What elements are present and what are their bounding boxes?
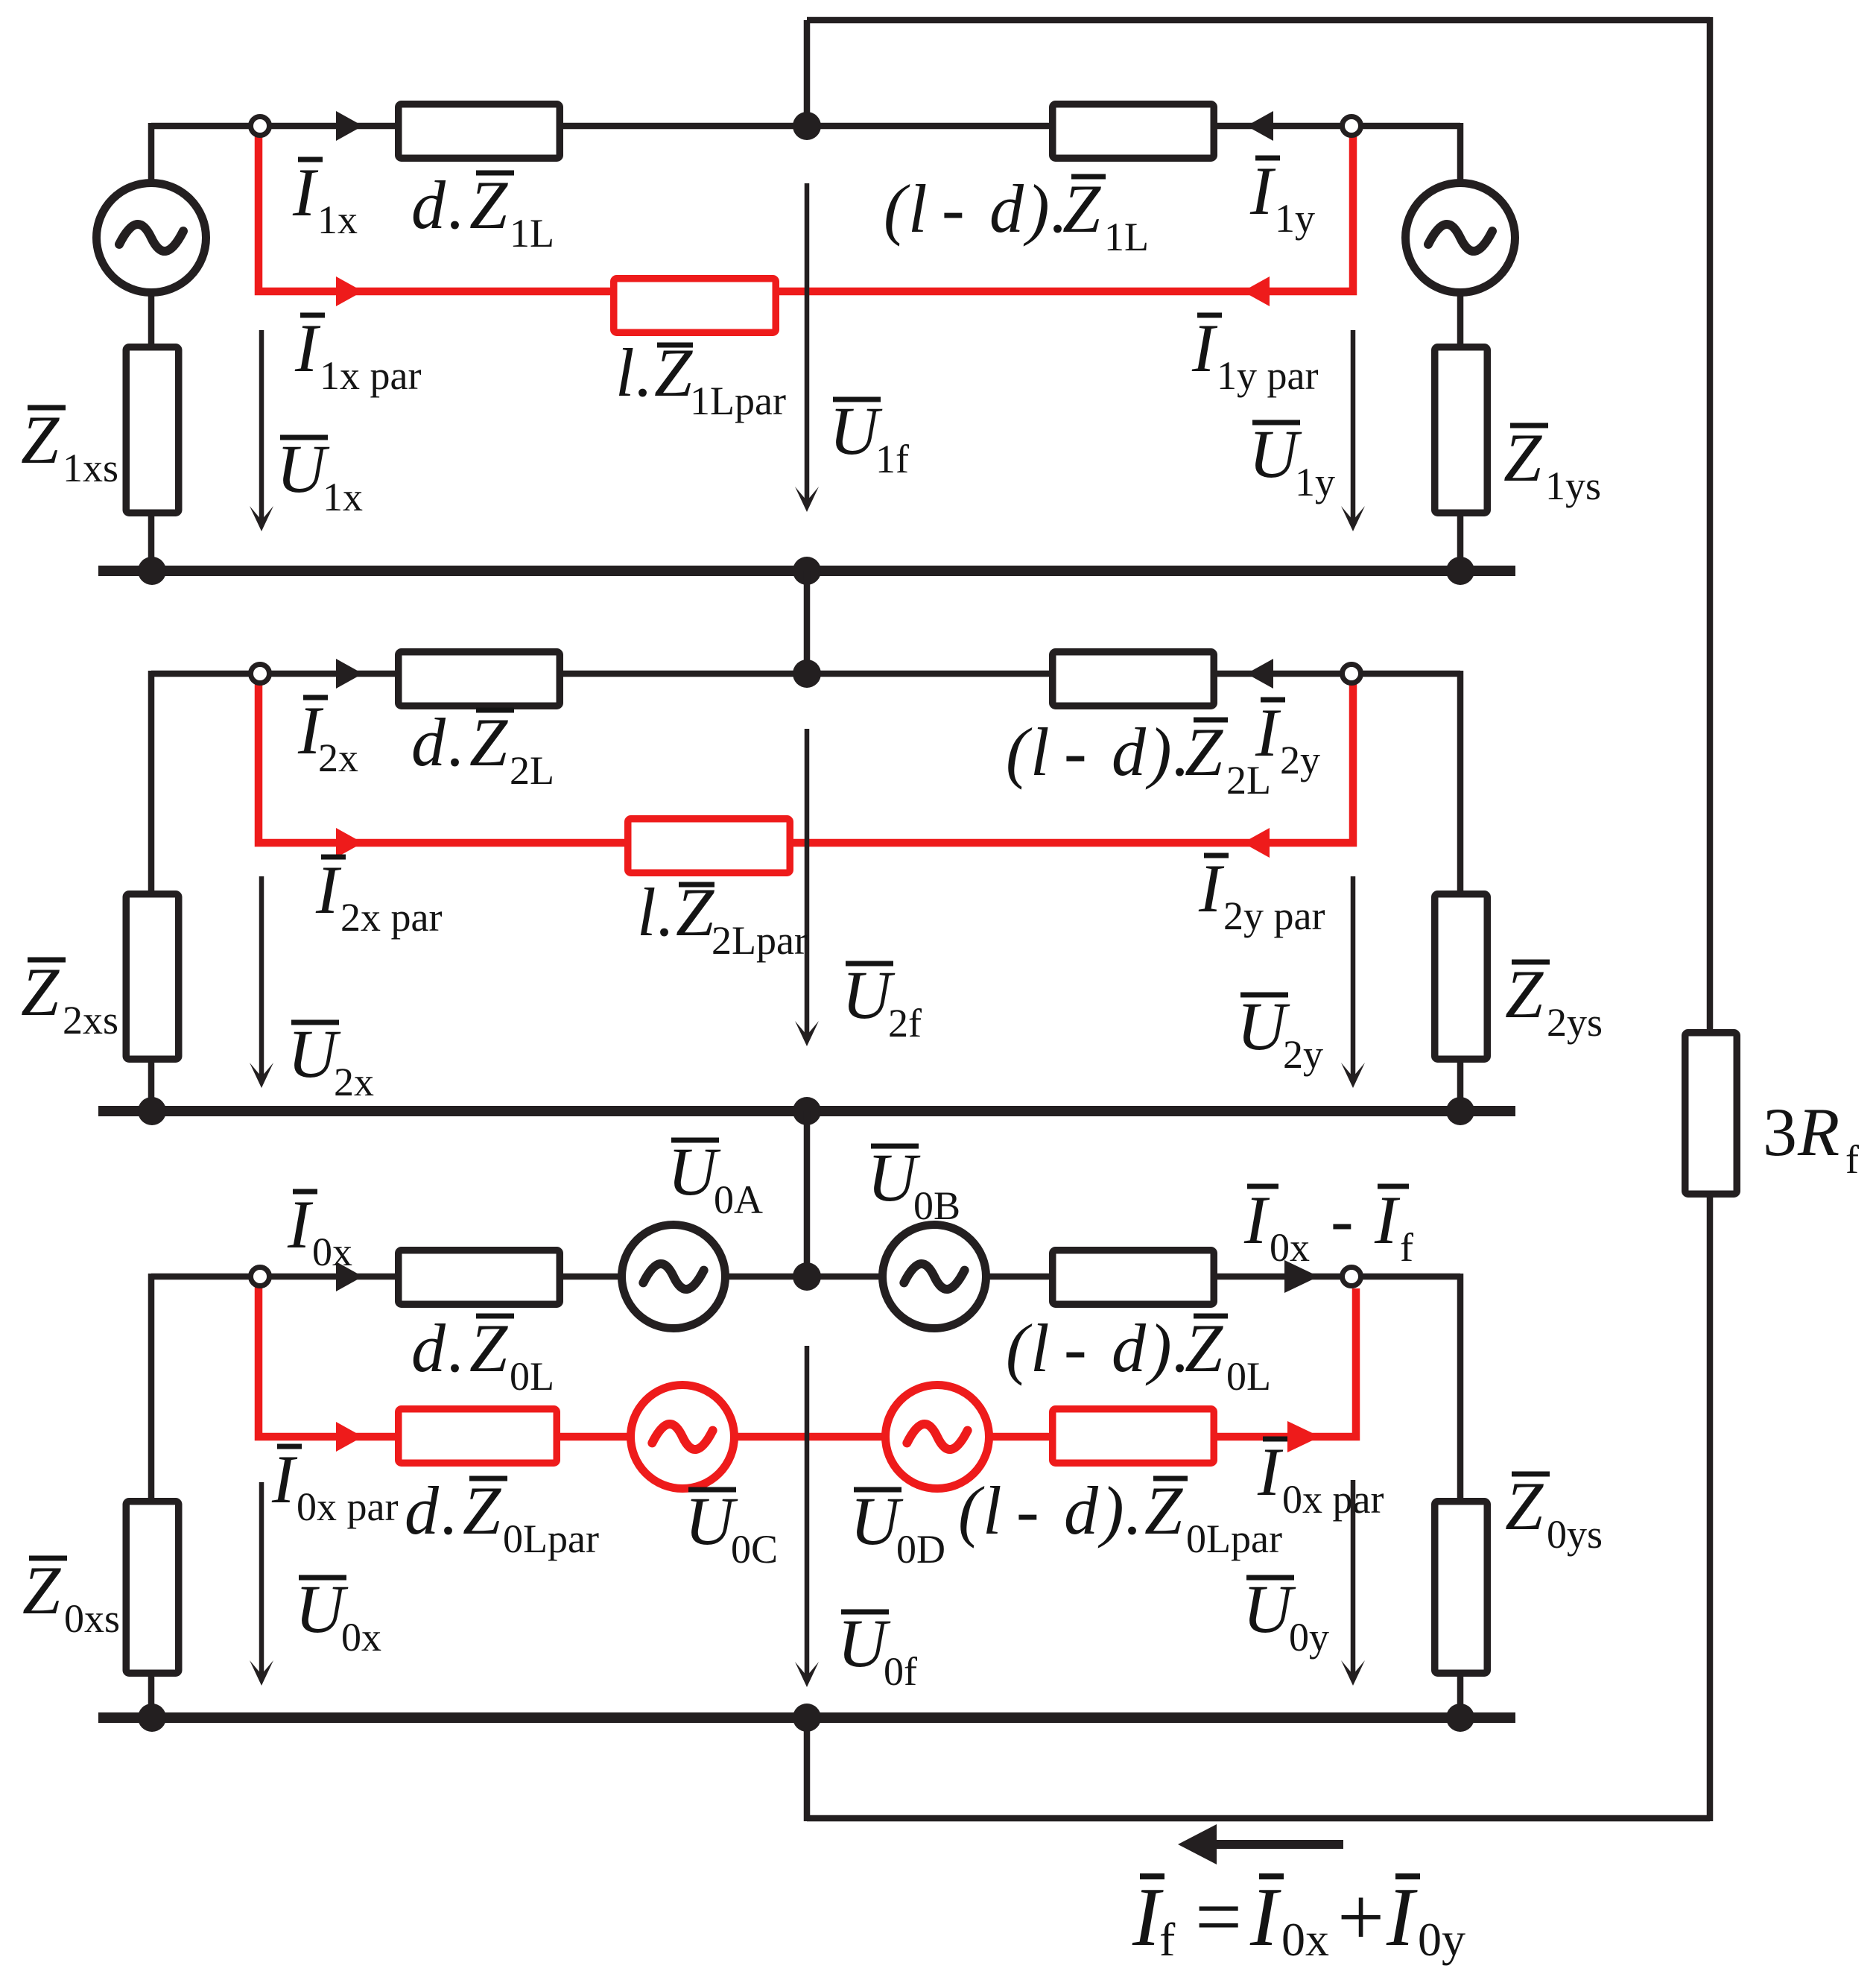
red parallel-line path zero-seq bbox=[259, 1285, 1356, 1437]
svg-text:0L: 0L bbox=[510, 1354, 554, 1399]
terminal x side negative-seq bbox=[251, 665, 270, 683]
svg-text:d: d bbox=[1112, 714, 1147, 790]
svg-text:I: I bbox=[292, 154, 319, 230]
svg-text:Z: Z bbox=[469, 1310, 508, 1386]
resistor (l-d).Z0Lpar bbox=[1053, 1409, 1214, 1464]
svg-text:R: R bbox=[1797, 1094, 1839, 1170]
svg-text:): ) bbox=[1023, 171, 1050, 247]
svg-text:1x: 1x bbox=[323, 475, 363, 519]
svg-text:Z: Z bbox=[469, 704, 508, 780]
svg-text:0xs: 0xs bbox=[64, 1596, 120, 1641]
svg-text:2xs: 2xs bbox=[63, 998, 118, 1043]
svg-text:I: I bbox=[1374, 1182, 1401, 1258]
wire top outer from fault node to right rail bbox=[807, 17, 1710, 24]
impedance Z2ys bbox=[1435, 894, 1488, 1060]
resistor (l-d).Z1L bbox=[1053, 104, 1214, 159]
svg-text:(: ( bbox=[958, 1473, 985, 1549]
source U0A bbox=[622, 1225, 726, 1329]
svg-text:0Lpar: 0Lpar bbox=[503, 1516, 599, 1561]
svg-text:): ) bbox=[1097, 1473, 1124, 1549]
resistor d.Z0L bbox=[399, 1250, 560, 1305]
arrow U0f bbox=[805, 1346, 810, 1681]
svg-text:0x: 0x bbox=[1270, 1225, 1310, 1270]
wire center rail bus1 to negative-seq line bbox=[804, 571, 811, 674]
svg-text:1x par: 1x par bbox=[320, 353, 421, 398]
wire center vertical from top wire to section-1 fault node bbox=[804, 20, 811, 126]
impedance Z0ys bbox=[1435, 1502, 1488, 1674]
svg-text:Z: Z bbox=[463, 1473, 501, 1549]
resistor 3Rf bbox=[1685, 1033, 1737, 1195]
arrow U1y bbox=[1351, 330, 1356, 525]
resistor l.Z1Lpar bbox=[614, 279, 776, 333]
svg-text:Z: Z bbox=[1505, 956, 1544, 1032]
svg-text:2y: 2y bbox=[1283, 1032, 1323, 1077]
svg-text:I: I bbox=[1386, 1871, 1418, 1964]
svg-text:Z: Z bbox=[1503, 420, 1542, 496]
svg-text:l: l bbox=[615, 335, 635, 411]
svg-text:2Lpar: 2Lpar bbox=[712, 918, 808, 963]
svg-text:I: I bbox=[1243, 1182, 1270, 1258]
svg-text:-: - bbox=[1064, 714, 1087, 790]
svg-text:l: l bbox=[908, 171, 928, 247]
svg-text:Z: Z bbox=[21, 954, 60, 1030]
wire source E1y to Z1ys bbox=[1457, 294, 1464, 345]
svg-text:Z: Z bbox=[1185, 714, 1223, 790]
svg-text:0x: 0x bbox=[312, 1230, 352, 1274]
arrow U1f bbox=[805, 183, 810, 506]
terminal x side positive-seq bbox=[251, 117, 270, 136]
wire right rail to source E1y bbox=[1457, 123, 1464, 181]
svg-text:+: + bbox=[1337, 1871, 1384, 1964]
svg-text:2ys: 2ys bbox=[1547, 1000, 1603, 1045]
terminal x side zero-seq bbox=[251, 1268, 270, 1286]
svg-text:I: I bbox=[294, 310, 321, 386]
arrow I0x minus If bbox=[1284, 1260, 1319, 1293]
svg-text:.: . bbox=[440, 1473, 457, 1549]
node bus left zero-seq bbox=[138, 1704, 166, 1732]
svg-text:Z: Z bbox=[469, 167, 508, 243]
impedance Z2xs bbox=[126, 894, 179, 1060]
svg-text:l: l bbox=[637, 874, 656, 950]
svg-text:1L: 1L bbox=[510, 211, 554, 256]
source U0C bbox=[631, 1385, 735, 1489]
svg-text:0B: 0B bbox=[913, 1183, 960, 1228]
svg-text:2x: 2x bbox=[318, 736, 358, 780]
svg-text:1xs: 1xs bbox=[63, 446, 118, 490]
svg-text:2y par: 2y par bbox=[1223, 893, 1325, 938]
svg-text:.: . bbox=[656, 874, 673, 950]
wire source E1x to Z1xs bbox=[148, 294, 155, 345]
source E1y bbox=[1406, 183, 1515, 293]
svg-text:0x: 0x bbox=[1281, 1913, 1329, 1966]
svg-text:0D: 0D bbox=[896, 1527, 945, 1572]
red parallel-line path negative-seq bbox=[259, 683, 1353, 843]
wire center rail bus2 to zero-seq line bbox=[804, 1111, 811, 1277]
red arrow I2x par bbox=[336, 828, 363, 858]
red arrow I0x par left bbox=[336, 1422, 363, 1452]
resistor d.Z1L bbox=[399, 104, 560, 159]
svg-text:1y: 1y bbox=[1275, 196, 1315, 241]
wire Z1xs to bus bbox=[148, 515, 155, 571]
svg-text:Z: Z bbox=[21, 402, 60, 478]
svg-text:.: . bbox=[446, 167, 463, 243]
svg-text:-: - bbox=[1331, 1182, 1354, 1258]
svg-text:-: - bbox=[1016, 1473, 1039, 1549]
svg-text:d: d bbox=[411, 1310, 446, 1386]
svg-text:Z: Z bbox=[22, 1552, 61, 1628]
svg-text:.: . bbox=[1124, 1473, 1141, 1549]
svg-text:1y par: 1y par bbox=[1217, 353, 1318, 398]
wire zero-seq main line bbox=[151, 1274, 1460, 1280]
svg-text:=: = bbox=[1195, 1871, 1242, 1964]
arrow I0x bbox=[336, 1262, 363, 1291]
node bus center zero-seq bbox=[793, 1704, 821, 1732]
svg-text:-: - bbox=[1064, 1310, 1087, 1386]
resistor d.Z2L bbox=[399, 652, 560, 706]
svg-text:1ys: 1ys bbox=[1545, 464, 1601, 508]
svg-text:-: - bbox=[942, 171, 965, 247]
svg-text:I: I bbox=[271, 1441, 298, 1517]
wire left rail to source E1x bbox=[148, 123, 155, 181]
node bus right positive-seq bbox=[1446, 557, 1474, 585]
terminal y side positive-seq bbox=[1343, 117, 1361, 136]
svg-text:d: d bbox=[1064, 1473, 1099, 1549]
svg-text:I: I bbox=[1249, 153, 1276, 229]
svg-text:d: d bbox=[411, 167, 446, 243]
wire negative-seq main line bbox=[151, 671, 1460, 677]
red arrow I1x par bbox=[336, 276, 363, 306]
svg-text:.: . bbox=[634, 335, 651, 411]
svg-text:I: I bbox=[1191, 310, 1218, 386]
wire center rail below zero-seq bus bbox=[804, 1718, 811, 1821]
wire bottom outer from below zero-seq bus to right rail bbox=[807, 1815, 1710, 1822]
svg-text:I: I bbox=[1257, 1434, 1284, 1510]
wire positive-seq main line bbox=[151, 123, 1460, 130]
node bus center positive-seq bbox=[793, 557, 821, 585]
node fault negative-seq bbox=[793, 659, 821, 688]
node bus center negative-seq bbox=[793, 1097, 821, 1125]
red arrow I1y par bbox=[1243, 276, 1270, 306]
resistor (l-d).Z0L bbox=[1053, 1250, 1214, 1305]
svg-text:2x: 2x bbox=[334, 1060, 374, 1104]
impedance Z1ys bbox=[1435, 347, 1488, 513]
svg-text:0C: 0C bbox=[731, 1527, 778, 1572]
svg-text:1L: 1L bbox=[1104, 215, 1149, 259]
svg-text:Z: Z bbox=[1505, 1468, 1544, 1544]
svg-text:I: I bbox=[287, 1186, 314, 1262]
svg-text:2x par: 2x par bbox=[340, 895, 442, 940]
svg-text:2f: 2f bbox=[888, 1001, 922, 1046]
wire Z0ys to bus bbox=[1457, 1675, 1464, 1718]
arrow U2y bbox=[1351, 876, 1356, 1082]
arrow U1x bbox=[259, 330, 264, 525]
wire left rail to Z2xs bbox=[148, 671, 155, 892]
svg-text:1f: 1f bbox=[875, 437, 909, 481]
bus negative-seq reference bbox=[98, 1106, 1515, 1116]
svg-text:l: l bbox=[1030, 714, 1050, 790]
wire Z0xs to bus bbox=[148, 1675, 155, 1718]
source U0B bbox=[883, 1225, 986, 1329]
svg-text:Z: Z bbox=[1062, 171, 1101, 247]
red arrow I2y par bbox=[1243, 828, 1270, 858]
node bus left negative-seq bbox=[138, 1097, 166, 1125]
svg-text:0ys: 0ys bbox=[1547, 1512, 1603, 1557]
source U0D bbox=[886, 1385, 989, 1489]
svg-text:.: . bbox=[446, 1310, 463, 1386]
node bus right negative-seq bbox=[1446, 1097, 1474, 1125]
wire right rail to Z2ys bbox=[1457, 671, 1464, 892]
wire bottom-right outer vertical up to 3Rf bbox=[1707, 1198, 1714, 1821]
svg-text:0x par: 0x par bbox=[297, 1484, 398, 1529]
svg-text:0L: 0L bbox=[1226, 1354, 1271, 1399]
wire top-right outer vertical down to 3Rf bbox=[1707, 17, 1714, 1029]
impedance Z1xs bbox=[126, 347, 179, 513]
wire Z2xs to bus bbox=[148, 1061, 155, 1111]
svg-text:0y: 0y bbox=[1418, 1913, 1465, 1966]
svg-text:1Lpar: 1Lpar bbox=[690, 379, 786, 423]
red parallel-line path positive-seq bbox=[259, 136, 1353, 291]
svg-text:0f: 0f bbox=[884, 1649, 917, 1694]
svg-text:2y: 2y bbox=[1280, 738, 1320, 782]
svg-text:0A: 0A bbox=[714, 1177, 763, 1222]
resistor (l-d).Z2L bbox=[1053, 652, 1214, 706]
svg-text:d: d bbox=[1112, 1310, 1147, 1386]
svg-text:l: l bbox=[1030, 1310, 1050, 1386]
svg-text:Z: Z bbox=[1185, 1310, 1223, 1386]
source E1x bbox=[97, 183, 206, 293]
arrow I2x bbox=[336, 659, 363, 689]
wire Z1ys to bus bbox=[1457, 515, 1464, 571]
wire right rail to Z0ys bbox=[1457, 1274, 1464, 1499]
arrow fault current If bbox=[1178, 1824, 1217, 1864]
svg-text:f: f bbox=[1159, 1913, 1176, 1966]
arrow U2f bbox=[805, 729, 810, 1040]
node bus left positive-seq bbox=[138, 557, 166, 585]
svg-text:Z: Z bbox=[1144, 1473, 1183, 1549]
svg-text:): ) bbox=[1145, 714, 1172, 790]
node fault positive-seq bbox=[793, 112, 821, 140]
svg-text:1x: 1x bbox=[317, 197, 358, 242]
impedance Z0xs bbox=[126, 1502, 179, 1674]
svg-text:d: d bbox=[989, 171, 1024, 247]
svg-text:3: 3 bbox=[1763, 1094, 1797, 1170]
svg-text:0Lpar: 0Lpar bbox=[1186, 1516, 1282, 1561]
node bus right zero-seq bbox=[1446, 1704, 1474, 1732]
bus positive-seq reference bbox=[98, 566, 1515, 576]
arrow U0y bbox=[1351, 1480, 1356, 1680]
svg-text:0x: 0x bbox=[341, 1615, 381, 1660]
svg-text:I: I bbox=[315, 852, 342, 928]
svg-text:(: ( bbox=[884, 171, 910, 247]
svg-text:(: ( bbox=[1006, 1310, 1033, 1386]
svg-text:0y: 0y bbox=[1289, 1615, 1329, 1660]
svg-text:1y: 1y bbox=[1295, 460, 1335, 504]
node fault zero-seq bbox=[793, 1262, 821, 1291]
svg-text:.: . bbox=[446, 704, 463, 780]
wire left rail to Z0xs bbox=[148, 1274, 155, 1499]
resistor l.Z2Lpar bbox=[628, 819, 790, 873]
terminal y side zero-seq bbox=[1343, 1268, 1361, 1286]
svg-text:d: d bbox=[405, 1473, 440, 1549]
svg-text:l: l bbox=[983, 1473, 1002, 1549]
svg-text:f: f bbox=[1845, 1137, 1859, 1182]
svg-text:d: d bbox=[411, 704, 446, 780]
red arrow I0x par right bbox=[1287, 1421, 1320, 1452]
arrow U0x bbox=[259, 1482, 264, 1680]
svg-text:I: I bbox=[1198, 850, 1225, 926]
terminal y side negative-seq bbox=[1343, 665, 1361, 683]
svg-text:0x par: 0x par bbox=[1282, 1477, 1384, 1522]
svg-text:I: I bbox=[1249, 1871, 1281, 1964]
arrow U2x bbox=[259, 876, 264, 1082]
arrow I1x bbox=[336, 111, 363, 141]
svg-text:2L: 2L bbox=[510, 748, 554, 793]
svg-text:): ) bbox=[1145, 1310, 1172, 1386]
svg-text:(: ( bbox=[1006, 714, 1033, 790]
svg-text:f: f bbox=[1400, 1225, 1413, 1270]
arrow I1y bbox=[1246, 111, 1273, 141]
svg-text:I: I bbox=[1255, 695, 1281, 771]
arrow I2y bbox=[1246, 659, 1273, 689]
wire Z2ys to bus bbox=[1457, 1061, 1464, 1111]
resistor d.Z0Lpar bbox=[399, 1409, 557, 1464]
bus zero-seq reference bbox=[98, 1712, 1515, 1723]
